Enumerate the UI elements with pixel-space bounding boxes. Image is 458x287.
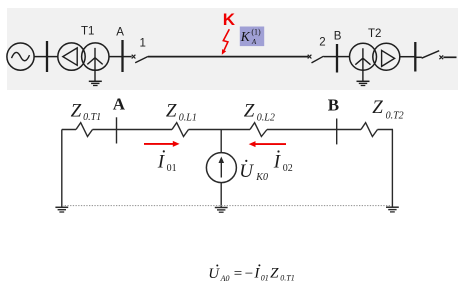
busbar generator xyxy=(46,41,48,72)
wire xyxy=(324,56,337,58)
wire xyxy=(34,56,47,58)
label Z0.L1 xyxy=(166,101,197,124)
left vertical wire xyxy=(61,130,63,208)
voltage source UK0 xyxy=(206,153,236,183)
lightning bolt xyxy=(222,29,230,55)
svg-text:K: K xyxy=(240,29,251,44)
label I02 xyxy=(273,150,293,174)
transformer T1 xyxy=(58,43,109,70)
wire xyxy=(400,56,416,58)
transformer T2 xyxy=(350,43,400,70)
current arrow I01 xyxy=(144,141,180,147)
svg-text:K: K xyxy=(223,10,236,29)
svg-text:2: 2 xyxy=(319,36,325,48)
svg-text:A0: A0 xyxy=(220,274,230,283)
node B tick xyxy=(336,119,338,145)
equation UA0 = -I01 Z0.T1 xyxy=(208,264,295,283)
svg-text:Z: Z xyxy=(244,101,255,122)
svg-text:0.T1: 0.T1 xyxy=(83,112,101,123)
wire xyxy=(123,56,132,58)
label UK0 xyxy=(239,160,268,183)
node A tick xyxy=(116,117,118,143)
ground left xyxy=(55,207,68,212)
T1 delta winding xyxy=(63,48,77,65)
T1 wye winding xyxy=(87,48,102,70)
busbar A xyxy=(121,40,123,72)
svg-text:0.T1: 0.T1 xyxy=(280,274,294,283)
svg-text:A: A xyxy=(251,38,257,46)
svg-text:I: I xyxy=(253,266,260,282)
ground right xyxy=(386,207,399,212)
svg-text:01: 01 xyxy=(167,163,177,174)
breaker 1 xyxy=(132,55,148,63)
wire xyxy=(337,56,350,58)
svg-text:0.T2: 0.T2 xyxy=(386,111,404,122)
ground bus dashed xyxy=(62,205,391,207)
label Z0.T1 xyxy=(71,100,102,123)
fault tag KA(1) xyxy=(240,27,265,47)
svg-text:Z: Z xyxy=(71,100,82,121)
label Z0.L2 xyxy=(244,101,275,124)
svg-text:(1): (1) xyxy=(251,27,261,36)
svg-text:0.L1: 0.L1 xyxy=(179,112,197,123)
resistor Z0.L1 xyxy=(172,123,189,137)
svg-text:Z: Z xyxy=(270,266,279,282)
svg-text:1: 1 xyxy=(140,38,146,50)
svg-text:I: I xyxy=(273,151,282,172)
ground middle xyxy=(215,208,228,213)
svg-text:U: U xyxy=(208,266,220,282)
label Z0.T2 xyxy=(372,97,403,122)
wire xyxy=(220,183,222,208)
svg-text:Z: Z xyxy=(372,97,383,118)
svg-text:T1: T1 xyxy=(81,25,94,37)
zero-sequence network: top rail wire xyxy=(62,129,393,131)
svg-text:I: I xyxy=(157,151,166,172)
svg-text:02: 02 xyxy=(283,163,293,174)
transmission line wire xyxy=(148,56,308,58)
svg-text:0.L2: 0.L2 xyxy=(257,113,275,124)
T1 neutral ground xyxy=(89,70,102,86)
wire xyxy=(109,56,123,58)
svg-text:T2: T2 xyxy=(368,28,381,40)
resistor Z0.T2 xyxy=(361,123,378,137)
T2 wye winding xyxy=(355,48,370,70)
T2 delta winding xyxy=(382,50,395,66)
svg-text:K0: K0 xyxy=(255,172,268,183)
busbar B xyxy=(336,44,338,73)
middle branch wire xyxy=(220,130,222,153)
T2 neutral ground xyxy=(357,70,370,86)
resistor Z0.T1 xyxy=(76,123,93,137)
generator G xyxy=(7,43,34,70)
svg-text:Z: Z xyxy=(166,101,177,122)
svg-text:A: A xyxy=(116,27,124,39)
right vertical wire xyxy=(391,130,393,208)
breaker 2 xyxy=(308,55,324,63)
busbar right xyxy=(414,42,416,72)
svg-text:A: A xyxy=(113,94,126,113)
svg-text:B: B xyxy=(334,30,342,42)
svg-text:01: 01 xyxy=(261,274,269,283)
svg-text:=: = xyxy=(234,266,242,282)
disconnect switch right xyxy=(415,51,456,60)
resistor Z0.L2 xyxy=(250,123,267,137)
label I01 xyxy=(157,150,177,174)
svg-text:U: U xyxy=(239,161,254,182)
svg-text:−: − xyxy=(245,266,253,282)
wire xyxy=(47,56,58,58)
current arrow I02 xyxy=(249,141,286,147)
svg-text:B: B xyxy=(328,96,339,115)
